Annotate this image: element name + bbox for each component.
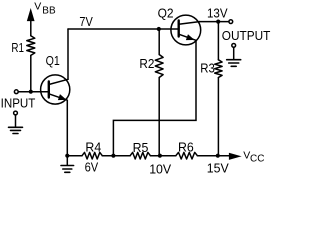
transistor Q2 [171, 15, 201, 45]
power VBB arrow [28, 10, 34, 36]
svg-text:13V: 13V [207, 6, 228, 21]
resistor R6 [176, 152, 198, 159]
svg-text:15V: 15V [207, 160, 229, 175]
OUTPUT terminal [229, 20, 233, 24]
resistor R3 [215, 60, 222, 78]
resistor R5 [130, 152, 150, 159]
svg-text:R6: R6 [178, 140, 194, 155]
node R4/R5 junction [111, 154, 115, 158]
transistor Q1 [41, 75, 70, 104]
ground (emitter) [61, 156, 74, 173]
wire rail segment 2 [102, 155, 130, 157]
wire Q1 emitter down to rail [66, 100, 68, 156]
wire 7V node down to R2 [158, 29, 160, 55]
svg-text:OUTPUT: OUTPUT [222, 28, 271, 43]
wire Q2 collector to output [200, 21, 229, 23]
wire Q2 emitter down and across to R4/R5 node [113, 40, 196, 155]
wire R2 bottom to rail [158, 78, 160, 156]
label VBB [34, 1, 56, 17]
wire input to Q1 base [18, 91, 49, 93]
svg-text:INPUT: INPUT [1, 96, 36, 111]
ground (output) [227, 44, 241, 67]
wire Q1 collector up [67, 29, 69, 79]
svg-text:BB: BB [42, 5, 56, 16]
node 7V/R2 junction [157, 27, 161, 31]
resistor R4 [82, 152, 102, 159]
svg-text:10V: 10V [149, 161, 171, 176]
svg-text:R2: R2 [139, 56, 154, 71]
node base junction [29, 90, 33, 94]
svg-text:7V: 7V [79, 14, 93, 29]
wire 13V node down to R3 [217, 22, 219, 60]
node 13V/R3 junction [216, 20, 220, 24]
ground (input) [9, 111, 23, 133]
resistor R2 [155, 55, 163, 78]
node R6/R3 junction [216, 154, 220, 158]
node R5/R6 junction [158, 154, 162, 158]
wire 7V node to Q2 base [68, 28, 179, 30]
node emitter/rail junction [65, 154, 69, 158]
wire R1 bottom to base node [30, 55, 32, 91]
resistor R1 [27, 36, 35, 56]
wire rail segment 3 [150, 155, 175, 157]
svg-text:Q1: Q1 [46, 53, 60, 68]
INPUT terminal [14, 90, 18, 94]
svg-text:R4: R4 [85, 140, 101, 155]
wire R3 bottom to rail [217, 78, 219, 156]
wire rail segment 1 [67, 155, 82, 157]
svg-text:R5: R5 [133, 140, 149, 155]
svg-text:R1: R1 [11, 40, 24, 55]
svg-text:R3: R3 [200, 61, 215, 76]
power VCC arrow [229, 153, 239, 159]
svg-text:6V: 6V [85, 160, 99, 175]
svg-text:CC: CC [250, 154, 264, 165]
label VCC [243, 149, 264, 164]
svg-text:Q2: Q2 [158, 6, 174, 21]
svg-text:V: V [34, 1, 41, 13]
wire rail segment 4 [197, 155, 229, 157]
